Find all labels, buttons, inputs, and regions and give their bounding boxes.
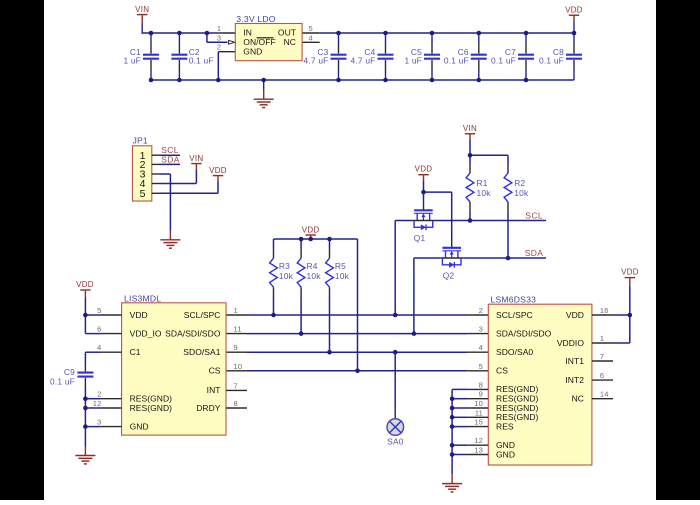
svg-text:11: 11 <box>475 408 483 417</box>
svg-text:SDO/SA0: SDO/SA0 <box>496 347 533 357</box>
svg-text:10k: 10k <box>477 188 492 198</box>
svg-text:1: 1 <box>217 24 221 33</box>
svg-text:12: 12 <box>93 399 102 408</box>
svg-text:1: 1 <box>600 334 604 343</box>
svg-text:INT1: INT1 <box>565 356 584 366</box>
svg-text:C1: C1 <box>130 347 141 357</box>
svg-text:8: 8 <box>234 399 238 408</box>
svg-text:VDD: VDD <box>130 310 148 320</box>
svg-text:GND: GND <box>496 449 515 459</box>
svg-text:5: 5 <box>97 306 101 315</box>
svg-text:10: 10 <box>234 362 243 371</box>
svg-text:VDD: VDD <box>565 5 583 14</box>
svg-text:CS: CS <box>209 366 221 376</box>
svg-text:3.3V LDO: 3.3V LDO <box>236 14 275 24</box>
svg-text:VIN: VIN <box>135 5 149 14</box>
svg-text:4.7 uF: 4.7 uF <box>304 56 329 66</box>
svg-text:7: 7 <box>234 381 238 390</box>
svg-text:Q2: Q2 <box>443 271 455 281</box>
svg-text:3: 3 <box>97 418 101 427</box>
svg-text:SDA/SDI/SDO: SDA/SDI/SDO <box>165 328 221 338</box>
svg-text:DRDY: DRDY <box>196 403 221 413</box>
svg-text:VDD: VDD <box>566 310 584 320</box>
svg-text:VDD: VDD <box>415 165 433 174</box>
svg-text:R3: R3 <box>279 261 290 271</box>
svg-text:GND: GND <box>130 421 149 431</box>
svg-text:SA0: SA0 <box>387 437 404 447</box>
svg-text:SDA: SDA <box>525 248 544 258</box>
svg-text:INT2: INT2 <box>565 375 584 385</box>
svg-text:4: 4 <box>479 343 483 352</box>
svg-text:0.1 uF: 0.1 uF <box>444 56 469 66</box>
svg-text:10k: 10k <box>335 271 350 281</box>
svg-text:5: 5 <box>140 188 146 200</box>
svg-text:SCL/SPC: SCL/SPC <box>184 310 221 320</box>
svg-text:1 uF: 1 uF <box>123 56 141 66</box>
svg-text:10k: 10k <box>514 188 529 198</box>
svg-text:5: 5 <box>479 362 483 371</box>
svg-text:VDD: VDD <box>209 166 227 175</box>
svg-text:SCL/SPC: SCL/SPC <box>496 310 533 320</box>
svg-text:4: 4 <box>309 33 313 42</box>
svg-text:VDD: VDD <box>621 268 639 277</box>
svg-text:C9: C9 <box>64 367 75 377</box>
svg-text:VIN: VIN <box>463 124 477 133</box>
svg-text:6: 6 <box>600 371 604 380</box>
svg-text:VDD: VDD <box>76 280 94 289</box>
svg-text:10: 10 <box>474 399 483 408</box>
svg-text:VDDIO: VDDIO <box>557 338 585 348</box>
svg-text:VDD_IO: VDD_IO <box>130 328 162 338</box>
svg-text:12: 12 <box>474 436 483 445</box>
svg-text:R5: R5 <box>335 261 346 271</box>
svg-text:SDA: SDA <box>161 155 180 165</box>
svg-text:4.7 uF: 4.7 uF <box>351 56 376 66</box>
svg-text:CS: CS <box>496 366 508 376</box>
svg-text:1: 1 <box>234 306 238 315</box>
svg-text:16: 16 <box>600 306 609 315</box>
svg-text:1 uF: 1 uF <box>404 56 422 66</box>
svg-text:0.1 uF: 0.1 uF <box>491 56 516 66</box>
svg-text:14: 14 <box>600 390 609 399</box>
svg-text:GND: GND <box>243 46 262 56</box>
svg-text:NC: NC <box>284 37 296 47</box>
svg-text:VIN: VIN <box>189 154 203 163</box>
svg-text:3: 3 <box>479 325 483 334</box>
svg-text:2: 2 <box>217 43 221 52</box>
svg-text:3: 3 <box>217 33 221 42</box>
svg-text:R4: R4 <box>307 261 318 271</box>
svg-text:11: 11 <box>234 325 242 334</box>
svg-text:INT: INT <box>207 385 221 395</box>
svg-text:LSM6DS33: LSM6DS33 <box>491 294 537 304</box>
svg-text:VDD: VDD <box>302 225 320 234</box>
svg-text:R1: R1 <box>477 178 488 188</box>
svg-text:R2: R2 <box>514 178 525 188</box>
svg-text:2: 2 <box>97 390 101 399</box>
svg-text:NC: NC <box>572 394 584 404</box>
svg-text:10k: 10k <box>307 271 322 281</box>
svg-text:RES: RES <box>496 421 514 431</box>
svg-text:0.1 uF: 0.1 uF <box>50 376 75 386</box>
svg-text:4: 4 <box>97 343 101 352</box>
svg-text:SCL: SCL <box>525 210 543 220</box>
svg-text:2: 2 <box>479 306 483 315</box>
svg-text:0.1 uF: 0.1 uF <box>539 56 564 66</box>
svg-text:Q1: Q1 <box>414 233 426 243</box>
svg-text:13: 13 <box>474 446 483 455</box>
svg-text:JP1: JP1 <box>133 135 148 145</box>
svg-text:5: 5 <box>309 24 313 33</box>
svg-text:RES(GND): RES(GND) <box>130 403 173 413</box>
svg-text:SDA/SDI/SDO: SDA/SDI/SDO <box>496 328 552 338</box>
svg-text:9: 9 <box>234 343 238 352</box>
svg-text:LIS3MDL: LIS3MDL <box>124 293 161 303</box>
svg-text:10k: 10k <box>279 271 294 281</box>
svg-text:9: 9 <box>479 390 483 399</box>
svg-text:SDO/SA1: SDO/SA1 <box>183 347 220 357</box>
svg-text:6: 6 <box>97 325 101 334</box>
svg-text:0.1 uF: 0.1 uF <box>189 56 214 66</box>
svg-text:7: 7 <box>600 352 604 361</box>
svg-text:15: 15 <box>474 418 483 427</box>
svg-text:8: 8 <box>479 380 483 389</box>
